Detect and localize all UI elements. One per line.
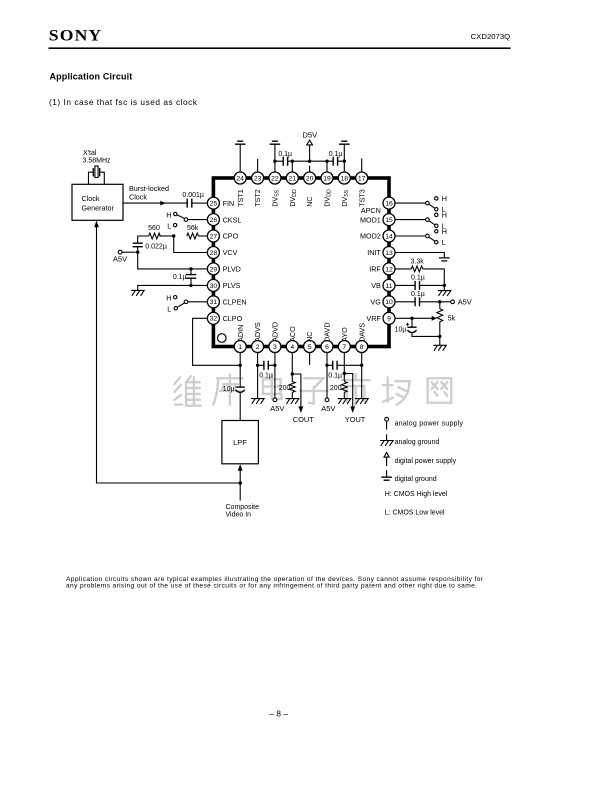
node junction pin22/rail — [273, 160, 276, 163]
wire pin1 ADIN down — [239, 353, 241, 388]
svg-text:LPF: LPF — [233, 438, 247, 447]
svg-text:A5V: A5V — [458, 298, 472, 307]
wire YOUT output arrow — [344, 374, 352, 408]
svg-text:A5V: A5V — [270, 404, 284, 413]
pin 24 — [234, 172, 246, 184]
pin 11 — [383, 279, 395, 291]
svg-text:TST2: TST2 — [253, 189, 262, 207]
svg-text:PLVD: PLVD — [223, 265, 241, 274]
svg-text:200: 200 — [330, 385, 342, 392]
wire pin18 to digital ground — [343, 144, 345, 172]
pin 17 — [356, 172, 368, 184]
pin 1 indicator — [218, 334, 227, 343]
resistor 3.3k (IRF) — [395, 268, 411, 270]
wire composite node to LPF with up arrow — [239, 470, 241, 484]
pin 14 — [383, 230, 395, 242]
svg-text:10µ: 10µ — [395, 327, 407, 334]
pin 7 — [338, 341, 350, 353]
svg-text:12: 12 — [385, 266, 393, 273]
wire pin24 to digital ground — [239, 144, 241, 172]
wire pin4 ACO — [291, 353, 293, 382]
svg-text:29: 29 — [210, 266, 218, 273]
svg-text:analog power supply: analog power supply — [395, 421, 464, 428]
svg-text:ADVS: ADVS — [253, 322, 262, 342]
svg-text:0.1µ: 0.1µ — [411, 291, 425, 298]
svg-text:VB: VB — [371, 281, 381, 290]
switch CLPEN (pin 31) — [188, 301, 208, 303]
svg-text:CPO: CPO — [223, 232, 239, 241]
svg-text:4: 4 — [290, 344, 294, 351]
svg-text:0.022µ: 0.022µ — [145, 243, 167, 250]
analog ground (VB node) — [443, 285, 445, 290]
pin 18 — [338, 172, 350, 184]
switch MOD2 (pin 14) — [395, 235, 426, 237]
svg-text:CXD2073Q: CXD2073Q — [471, 32, 511, 41]
svg-text:1: 1 — [238, 344, 242, 351]
pin 26 — [207, 214, 219, 226]
header rule — [49, 47, 511, 49]
crystal X1 leads — [89, 172, 105, 184]
pin 32 — [207, 312, 219, 324]
svg-text:11: 11 — [385, 283, 392, 290]
pin 25 — [207, 197, 219, 209]
svg-text:DAVD: DAVD — [323, 322, 332, 341]
watermark 维库电子市场网 — [174, 374, 451, 405]
legend digital power supply symbol — [384, 453, 389, 458]
svg-text:9: 9 — [387, 316, 391, 323]
wire stub pin23 TST2 — [257, 159, 259, 172]
pin 1 — [234, 341, 246, 353]
svg-text:X'tal: X'tal — [83, 150, 97, 157]
pin 4 — [286, 341, 298, 353]
svg-text:32: 32 — [210, 316, 218, 323]
power D5V digital power supply — [309, 145, 311, 161]
node CPO junction — [172, 234, 175, 237]
svg-text:VRF: VRF — [366, 314, 381, 323]
analog ground (DAVS) — [355, 399, 368, 404]
svg-text:ADVD: ADVD — [271, 322, 280, 342]
svg-text:3.58MHz: 3.58MHz — [83, 158, 112, 165]
svg-text:0.1µ: 0.1µ — [328, 372, 342, 379]
svg-text:0.1µ: 0.1µ — [259, 372, 273, 379]
svg-text:56k: 56k — [187, 225, 199, 232]
svg-text:14: 14 — [385, 233, 393, 240]
svg-text:0.1µ: 0.1µ — [173, 274, 187, 281]
svg-text:Clock: Clock — [82, 194, 100, 203]
svg-text:28: 28 — [210, 250, 218, 257]
svg-text:CLPO: CLPO — [223, 314, 243, 323]
svg-text:ACO: ACO — [288, 326, 297, 342]
svg-text:25: 25 — [210, 201, 218, 208]
terminal A5V (ADVD) — [273, 398, 277, 402]
svg-text:L: L — [167, 304, 171, 313]
svg-text:YOUT: YOUT — [345, 415, 366, 424]
pin 28 — [207, 247, 219, 259]
wire clock generator to FIN — [123, 202, 187, 204]
svg-text:200: 200 — [279, 385, 291, 392]
digital ground (pin 18 DVss) — [339, 141, 350, 144]
svg-text:15: 15 — [385, 217, 393, 224]
wire pin21 DVdd lead — [291, 161, 293, 172]
wire stub pin5 NC — [309, 353, 311, 366]
clock generator block — [72, 184, 123, 220]
wire feedback to clock generator — [97, 227, 241, 483]
resistor 200 (AYO) — [341, 382, 347, 393]
svg-text:0.1µ: 0.1µ — [278, 151, 292, 158]
wire pin2 ADVS to analog ground — [257, 353, 259, 399]
wire VRF pin9 to wiper — [395, 317, 432, 319]
wire A5V node to PLVD — [138, 252, 208, 269]
svg-text:INIT: INIT — [367, 248, 381, 257]
pin 29 — [207, 263, 219, 275]
resistor 200 (ACO) — [289, 382, 295, 393]
svg-text:VG: VG — [370, 298, 381, 307]
wire pin22 to digital ground — [274, 144, 276, 172]
capacitor 0.1µ (DAVD-DAVS) — [327, 364, 362, 366]
wire D5V supply rail — [275, 160, 344, 162]
capacitor 10µ (VRF) — [411, 318, 413, 327]
resistor 560 — [159, 235, 173, 237]
svg-text:7: 7 — [342, 344, 346, 351]
svg-text:H: CMOS High level: H: CMOS High level — [385, 491, 448, 498]
terminal A5V analog supply (left) — [122, 251, 136, 253]
pin 2 — [252, 341, 264, 353]
legend analog ground symbol — [386, 434, 388, 440]
capacitor 10µ (ADIN) — [236, 386, 245, 388]
pin 27 — [207, 230, 219, 242]
svg-text:MOD2: MOD2 — [360, 232, 381, 241]
pin 22 — [269, 172, 281, 184]
svg-text:Clock: Clock — [129, 192, 147, 201]
svg-text:– 8 –: – 8 – — [269, 709, 288, 719]
svg-text:0.001µ: 0.001µ — [182, 192, 204, 199]
svg-text:3: 3 — [273, 344, 277, 351]
svg-text:digital power supply: digital power supply — [395, 458, 457, 465]
pin 8 — [356, 341, 368, 353]
svg-text:NC: NC — [305, 196, 314, 206]
svg-text:19: 19 — [323, 175, 331, 182]
digital ground (pin 22 DVss) — [270, 141, 281, 144]
analog ground (ADVS) — [251, 399, 264, 404]
capacitor 0.1µ (PLVD-PLVS) — [190, 269, 192, 286]
capacitor 0.1µ (ADVS-ADVD) — [258, 364, 275, 366]
wire pin19 DVdd lead — [326, 161, 328, 172]
capacitor 0.022µ — [133, 243, 143, 247]
svg-text:0.1µ: 0.1µ — [329, 151, 343, 158]
legend analog power supply symbol — [385, 417, 389, 421]
svg-text:Generator: Generator — [82, 203, 115, 212]
wire stub pin17 TST3 — [361, 158, 363, 172]
pin 10 — [383, 296, 395, 308]
svg-text:8: 8 — [360, 344, 364, 351]
pin 13 — [383, 247, 395, 259]
wire INIT pin13 to digital ground — [395, 253, 444, 258]
svg-text:H: H — [442, 194, 447, 203]
pin 30 — [207, 279, 219, 291]
svg-text:23: 23 — [254, 175, 262, 182]
svg-text:(1) In case that fsc is used a: (1) In case that fsc is used as clock — [49, 97, 198, 107]
svg-text:2: 2 — [256, 344, 260, 351]
svg-text:17: 17 — [358, 175, 366, 182]
resistor 56k — [198, 235, 207, 237]
svg-text:IRF: IRF — [369, 265, 381, 274]
terminal A5V (DAVD) — [325, 398, 329, 402]
svg-text:FIN: FIN — [223, 199, 235, 208]
svg-text:0.1µ: 0.1µ — [411, 274, 425, 281]
pin 31 — [207, 296, 219, 308]
pin 23 — [252, 172, 264, 184]
pin 20 — [304, 172, 316, 184]
pin 15 — [383, 214, 395, 226]
pin 9 — [383, 312, 395, 324]
node A5V junction — [136, 251, 139, 254]
svg-text:analog ground: analog ground — [395, 439, 440, 446]
pin 3 — [269, 341, 281, 353]
svg-text:PLVS: PLVS — [223, 281, 241, 290]
svg-text:CKSL: CKSL — [223, 215, 242, 224]
svg-text:D5V: D5V — [302, 131, 318, 140]
svg-text:L: L — [167, 221, 171, 230]
svg-text:27: 27 — [210, 233, 218, 240]
svg-text:H: H — [442, 211, 447, 220]
terminal A5V (VG) — [451, 300, 455, 304]
svg-text:21: 21 — [289, 175, 297, 182]
analog ground (AYO) — [338, 399, 351, 404]
svg-text:560: 560 — [148, 225, 160, 232]
pin 16 — [383, 197, 395, 209]
svg-text:6: 6 — [325, 344, 329, 351]
svg-text:10: 10 — [385, 299, 393, 306]
wire junction to VCV pin28 — [174, 236, 208, 253]
capacitor 0.1µ (VG) — [395, 301, 451, 303]
svg-text:13: 13 — [385, 250, 393, 257]
capacitor 0.1µ (VB) — [395, 284, 444, 286]
switch MOD1 (pin 15) — [395, 219, 426, 221]
svg-text:Video In: Video In — [226, 512, 252, 519]
svg-text:ADIN: ADIN — [236, 325, 245, 342]
pin 19 — [321, 172, 333, 184]
op-amp U1 CXD2073Q package outline — [213, 178, 389, 347]
svg-text:H: H — [166, 293, 171, 302]
svg-text:TST1: TST1 — [236, 189, 245, 207]
svg-text:CLPEN: CLPEN — [223, 298, 247, 307]
LPF block — [222, 421, 259, 464]
svg-text:31: 31 — [210, 299, 218, 306]
svg-text:digital ground: digital ground — [395, 476, 437, 483]
capacitor 0.001µ — [187, 199, 192, 208]
svg-text:5: 5 — [308, 344, 312, 351]
svg-text:AYO: AYO — [340, 327, 349, 342]
svg-text:DAVS: DAVS — [357, 323, 366, 342]
svg-text:5k: 5k — [448, 316, 456, 323]
svg-text:20: 20 — [306, 175, 314, 182]
capacitor 0.1µ (DVdd-DVss right) — [333, 157, 337, 166]
wire pin8 DAVS to analog ground — [361, 353, 363, 399]
legend digital ground symbol — [386, 470, 388, 477]
wire stub pin20 NC — [309, 166, 311, 172]
svg-text:VCV: VCV — [223, 248, 238, 257]
potentiometer 5k — [439, 302, 441, 309]
digital ground (pin 24 TST1) — [235, 141, 246, 144]
wire composite video in — [239, 483, 241, 501]
svg-text:3.3k: 3.3k — [411, 258, 425, 265]
svg-text:SONY: SONY — [49, 27, 103, 44]
svg-text:H: H — [442, 227, 447, 236]
wire COUT output arrow — [292, 374, 301, 408]
analog ground (PLVS) — [131, 290, 144, 295]
wire pin3 ADVD to A5V — [274, 353, 276, 398]
svg-text:16: 16 — [385, 201, 393, 208]
svg-text:COUT: COUT — [293, 415, 314, 424]
svg-text:H: H — [166, 210, 171, 219]
pin 12 — [383, 263, 395, 275]
pin 21 — [286, 172, 298, 184]
svg-text:A5V: A5V — [321, 404, 335, 413]
svg-text:L: CMOS Low level: L: CMOS Low level — [385, 509, 445, 516]
pin 5 — [304, 341, 316, 353]
svg-text:Composite: Composite — [226, 504, 260, 511]
switch APCN (pin 16) — [395, 202, 426, 204]
svg-text:18: 18 — [341, 175, 349, 182]
switch CKSL (pin 26) — [188, 219, 208, 221]
svg-text:Application Circuit: Application Circuit — [50, 71, 133, 81]
analog ground (VRF network) — [439, 336, 441, 345]
crystal X1 3.58MHz — [93, 168, 99, 177]
wire CLPO pin32 to ADIN node — [193, 318, 241, 365]
pin 6 — [321, 341, 333, 353]
svg-text:10µ: 10µ — [223, 386, 235, 393]
svg-text:any problems arising out of th: any problems arising out of the use of t… — [66, 582, 477, 589]
wire PLVS to analog ground — [138, 285, 208, 290]
svg-text:24: 24 — [236, 175, 244, 182]
digital ground (INIT) — [439, 258, 450, 261]
svg-text:L: L — [442, 238, 446, 247]
svg-text:30: 30 — [210, 283, 218, 290]
svg-text:A5V: A5V — [113, 255, 127, 264]
svg-text:TST3: TST3 — [357, 189, 366, 207]
capacitor 0.1µ (DVss-DVdd left) — [283, 157, 287, 166]
svg-text:22: 22 — [271, 175, 279, 182]
svg-text:26: 26 — [210, 217, 218, 224]
svg-text:NC: NC — [305, 332, 314, 342]
wire pin6 DAVD to A5V — [326, 353, 328, 398]
wire pin7 AYO — [343, 353, 345, 382]
analog ground (ACO) — [286, 399, 299, 404]
svg-text:MOD1: MOD1 — [360, 215, 381, 224]
